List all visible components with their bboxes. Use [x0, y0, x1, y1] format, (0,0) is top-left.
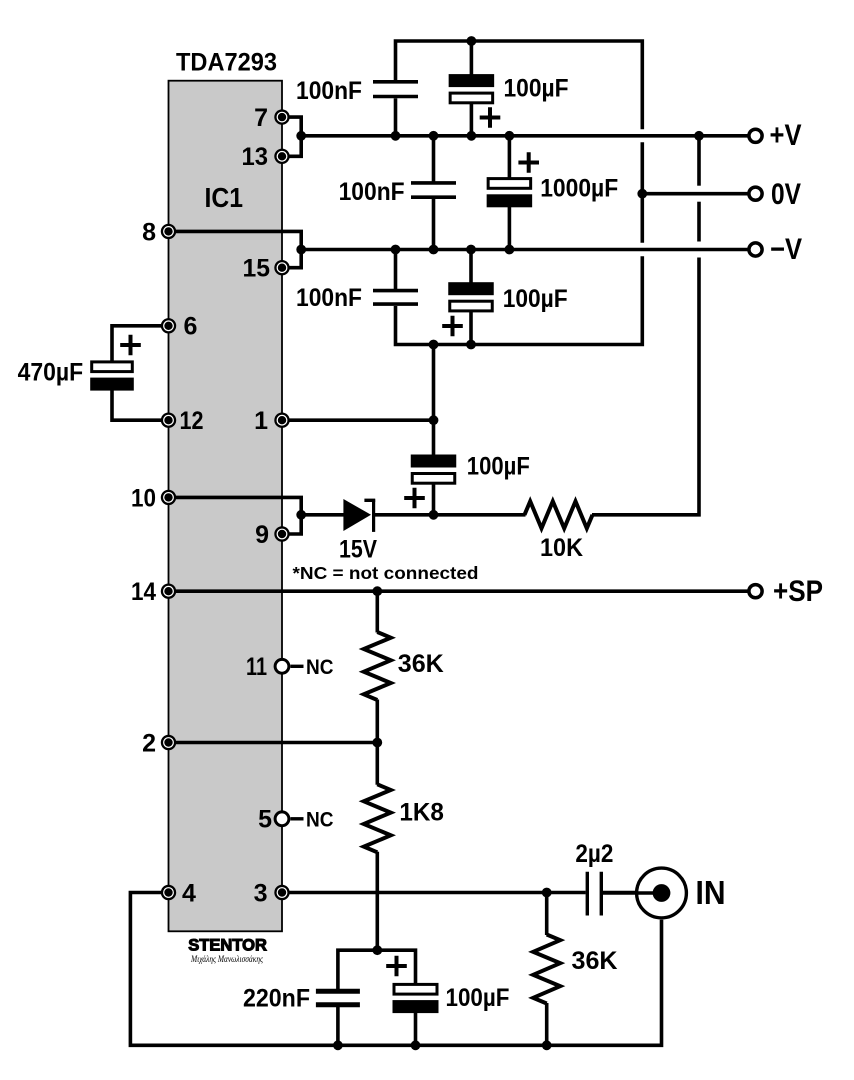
- svg-text:100µF: 100µF: [467, 453, 530, 481]
- svg-text:0V: 0V: [771, 178, 801, 211]
- svg-text:12: 12: [180, 407, 204, 435]
- svg-text:TDA7293: TDA7293: [176, 49, 277, 77]
- svg-text:3: 3: [254, 879, 268, 907]
- svg-text:11: 11: [246, 653, 267, 681]
- svg-text:NC: NC: [306, 656, 334, 679]
- svg-text:15: 15: [243, 255, 271, 283]
- svg-text:*NC = not connected: *NC = not connected: [293, 563, 479, 583]
- svg-text:1000µF: 1000µF: [540, 174, 618, 202]
- svg-text:STENTOR: STENTOR: [188, 936, 267, 954]
- svg-text:100nF: 100nF: [296, 77, 362, 105]
- svg-text:100nF: 100nF: [296, 284, 362, 312]
- svg-text:9: 9: [255, 521, 269, 549]
- svg-text:IN: IN: [696, 874, 726, 911]
- svg-text:15V: 15V: [339, 536, 377, 564]
- svg-text:14: 14: [131, 578, 156, 606]
- svg-text:+SP: +SP: [773, 575, 823, 608]
- svg-text:6: 6: [184, 313, 198, 341]
- svg-text:Μιχάλης Μανωλισσάκης: Μιχάλης Μανωλισσάκης: [190, 954, 263, 964]
- svg-text:2µ2: 2µ2: [575, 840, 613, 868]
- svg-text:−V: −V: [770, 233, 802, 266]
- svg-text:100µF: 100µF: [504, 74, 569, 102]
- svg-text:+V: +V: [770, 119, 802, 152]
- svg-text:220nF: 220nF: [243, 984, 310, 1012]
- svg-text:13: 13: [242, 143, 269, 171]
- svg-text:10K: 10K: [540, 534, 583, 562]
- svg-text:1K8: 1K8: [399, 799, 444, 827]
- svg-text:8: 8: [142, 218, 156, 246]
- svg-text:1: 1: [254, 407, 268, 435]
- svg-text:100µF: 100µF: [503, 285, 568, 313]
- svg-text:100µF: 100µF: [446, 984, 510, 1012]
- svg-text:36K: 36K: [398, 650, 444, 678]
- svg-text:100nF: 100nF: [339, 178, 405, 206]
- svg-text:5: 5: [258, 806, 272, 834]
- svg-text:2: 2: [142, 729, 156, 757]
- svg-text:IC1: IC1: [205, 182, 244, 213]
- svg-text:36K: 36K: [572, 947, 618, 975]
- svg-text:NC: NC: [306, 808, 334, 831]
- svg-text:7: 7: [254, 104, 268, 132]
- svg-text:470µF: 470µF: [18, 358, 84, 386]
- svg-text:10: 10: [131, 484, 156, 512]
- svg-text:4: 4: [182, 879, 196, 907]
